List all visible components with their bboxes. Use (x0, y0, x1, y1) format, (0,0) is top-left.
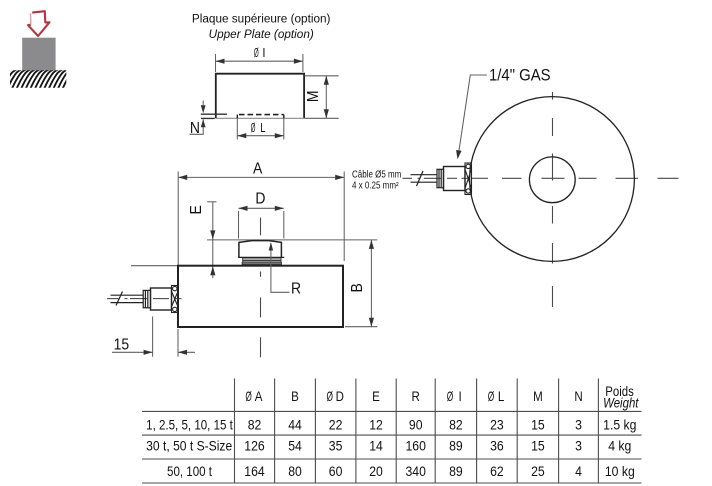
svg-text:12: 12 (369, 417, 383, 433)
svg-text:N: N (190, 121, 200, 138)
top view gland cap (437, 169, 444, 187)
svg-text:89: 89 (449, 438, 463, 454)
svg-text:3: 3 (575, 438, 582, 454)
svg-text:36: 36 (490, 438, 504, 454)
svg-text:E: E (372, 389, 380, 404)
button top extension line (207, 239, 377, 241)
leader R (271, 244, 290, 293)
side cable gland body (151, 288, 172, 310)
svg-text:Weight: Weight (603, 395, 639, 410)
svg-text:1/4" GAS: 1/4" GAS (489, 67, 551, 85)
main body outline (178, 266, 343, 327)
svg-text:Ø: Ø (326, 390, 333, 404)
svg-text:A: A (255, 389, 263, 404)
svg-text:82: 82 (248, 417, 262, 433)
table row 2 (146, 438, 631, 454)
svg-text:A: A (253, 161, 262, 178)
upper plate hidden recess dashed (239, 114, 284, 116)
svg-text:N: N (574, 389, 582, 404)
top view gland body (444, 167, 466, 191)
svg-text:62: 62 (490, 463, 504, 479)
svg-text:E: E (188, 205, 205, 214)
svg-text:35: 35 (329, 438, 343, 454)
svg-text:B: B (349, 283, 366, 292)
dimension B line (345, 240, 377, 327)
svg-text:3: 3 (575, 417, 582, 433)
svg-text:D: D (336, 389, 344, 404)
svg-text:4: 4 (575, 463, 582, 479)
svg-text:Ø: Ø (251, 122, 256, 136)
svg-text:M: M (305, 90, 322, 102)
dimension D line (239, 208, 284, 238)
svg-text:340: 340 (406, 463, 426, 479)
side cable (111, 292, 144, 306)
svg-text:1.5 kg: 1.5 kg (603, 417, 636, 433)
load button (238, 241, 284, 266)
svg-text:4 kg: 4 kg (608, 438, 631, 454)
top view crosshair horizontal (403, 177, 679, 179)
dimension ØL line (237, 118, 283, 139)
svg-text:4 x 0.25 mm²: 4 x 0.25 mm² (352, 180, 399, 191)
svg-text:15: 15 (531, 417, 545, 433)
svg-text:L: L (498, 389, 504, 404)
load icon hatched ground (2, 70, 76, 91)
load icon gray block (22, 38, 55, 71)
svg-text:Ø: Ø (488, 390, 495, 404)
load icon red arrow (28, 11, 50, 36)
dimension N ticks and arrows (201, 114, 227, 118)
svg-text:B: B (291, 389, 299, 404)
svg-text:60: 60 (329, 463, 343, 479)
svg-text:14: 14 (369, 438, 383, 454)
upper plate outline (216, 74, 304, 119)
table row 3 (167, 463, 635, 479)
leader to gland (459, 75, 487, 153)
svg-text:Plaque supérieure (option): Plaque supérieure (option) (192, 11, 331, 25)
side view centerline (260, 218, 262, 358)
svg-text:L: L (260, 122, 265, 136)
svg-text:23: 23 (490, 417, 504, 433)
svg-text:80: 80 (288, 463, 302, 479)
svg-text:1, 2.5, 5, 10, 15 t: 1, 2.5, 5, 10, 15 t (146, 418, 233, 433)
top view circle inner (529, 157, 575, 203)
svg-text:25: 25 (531, 463, 545, 479)
table grid (142, 379, 642, 484)
svg-text:R: R (291, 281, 301, 298)
side cable gland centerline (107, 298, 182, 300)
svg-text:90: 90 (409, 417, 423, 433)
top view gland knurled ring (465, 163, 472, 195)
top view circle outer (470, 97, 635, 262)
svg-text:Ø: Ø (447, 390, 454, 404)
svg-text:44: 44 (288, 417, 302, 433)
svg-text:89: 89 (449, 463, 463, 479)
svg-text:20: 20 (369, 463, 383, 479)
body top left extension (131, 265, 178, 267)
top view cable (411, 171, 438, 186)
svg-text:50, 100 t: 50, 100 t (167, 464, 212, 479)
svg-text:82: 82 (449, 417, 463, 433)
svg-text:30 t, 50 t S-Size: 30 t, 50 t S-Size (146, 438, 232, 454)
side cable gland cap (143, 290, 150, 307)
svg-text:22: 22 (329, 417, 343, 433)
svg-text:I: I (262, 45, 265, 60)
side cable gland knurled ring (172, 286, 179, 313)
svg-text:Câble Ø5 mm: Câble Ø5 mm (352, 169, 401, 180)
dimension A line (178, 172, 344, 266)
svg-text:10 kg: 10 kg (605, 463, 635, 479)
svg-text:15: 15 (114, 337, 130, 354)
dimension ØI line (216, 54, 303, 72)
svg-text:I: I (458, 389, 461, 404)
svg-text:D: D (255, 191, 265, 208)
svg-text:M: M (533, 389, 543, 404)
svg-text:54: 54 (288, 438, 302, 454)
svg-text:164: 164 (244, 463, 264, 479)
svg-text:Ø: Ø (254, 47, 259, 61)
svg-text:126: 126 (244, 438, 264, 454)
dimension E line (207, 202, 216, 278)
svg-text:R: R (412, 389, 420, 404)
dimension M line (305, 76, 339, 119)
table header row (245, 384, 639, 410)
top view crosshair vertical (552, 92, 554, 307)
svg-text:Upper Plate (option): Upper Plate (option) (209, 27, 314, 41)
svg-text:15: 15 (531, 438, 545, 454)
svg-text:160: 160 (406, 438, 426, 454)
svg-text:Ø: Ø (245, 390, 252, 404)
table row 1 (146, 417, 636, 433)
